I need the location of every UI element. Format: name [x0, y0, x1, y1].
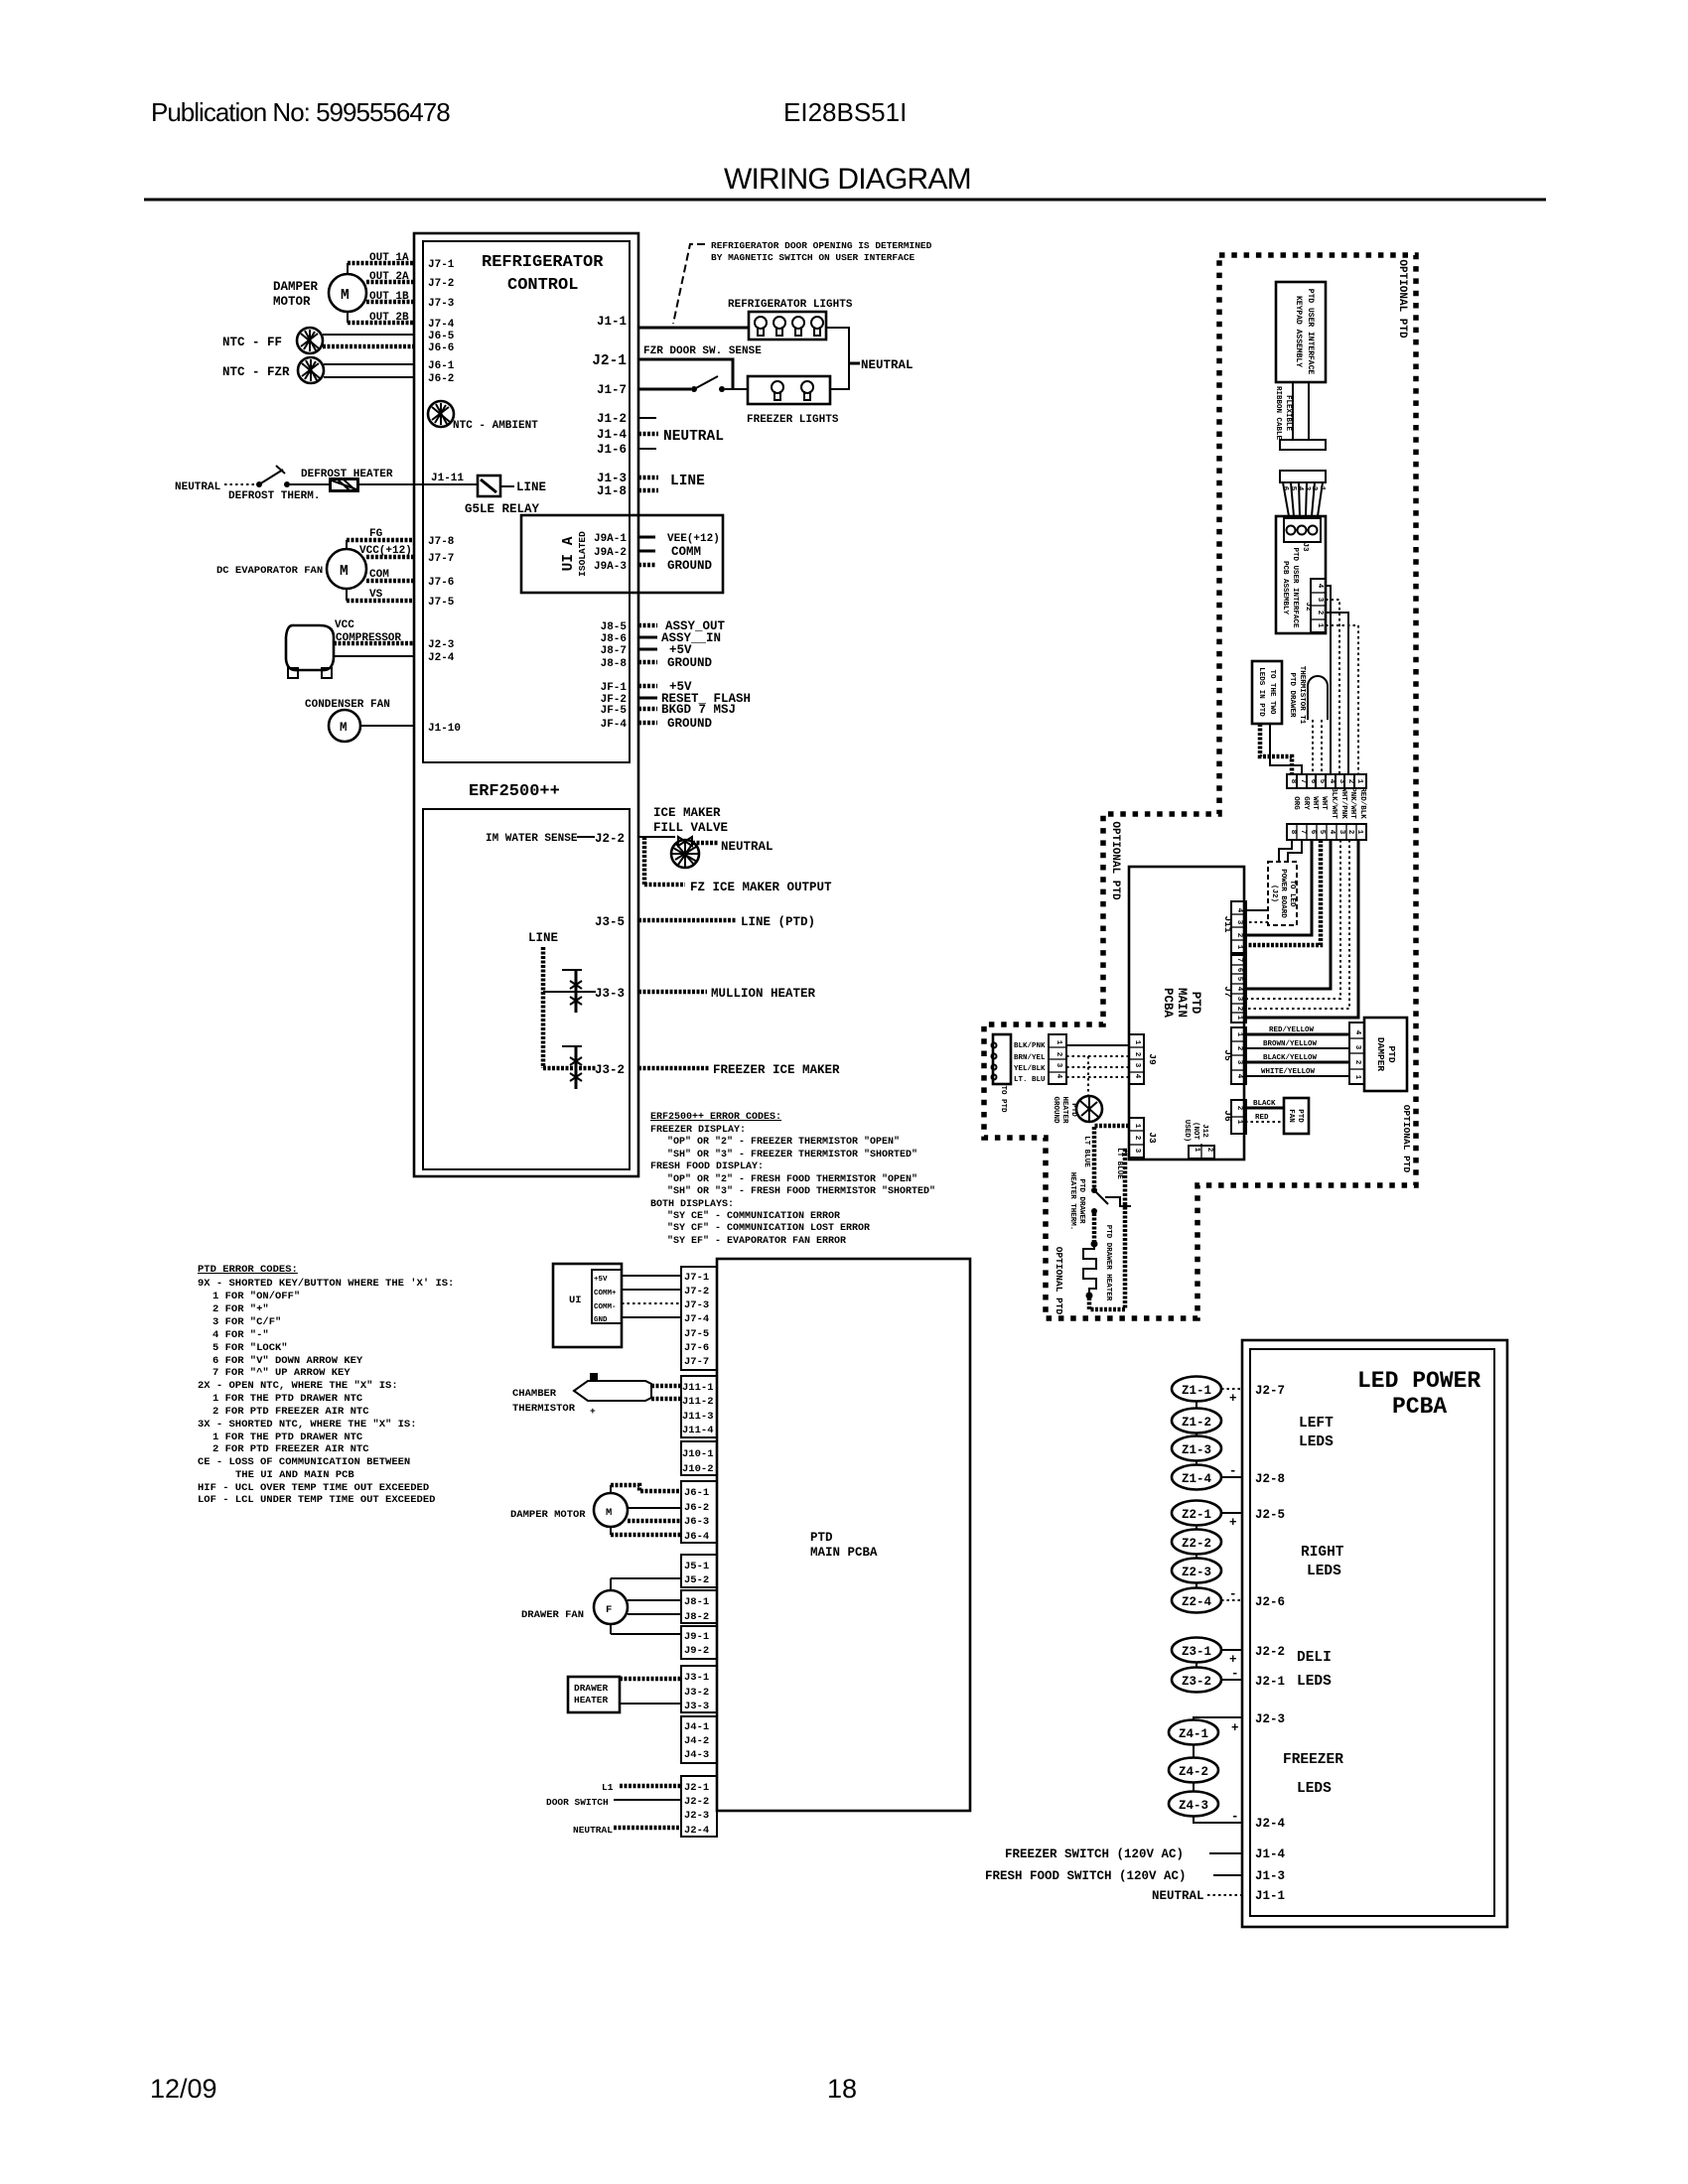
svg-text:BY MAGNETIC SWITCH ON USER INT: BY MAGNETIC SWITCH ON USER INTERFACE [711, 252, 915, 263]
svg-text:LT. BLU: LT. BLU [1014, 1076, 1046, 1084]
svg-text:M: M [340, 721, 348, 735]
svg-text:2 FOR "+": 2 FOR "+" [212, 1303, 269, 1315]
svg-text:1 FOR THE PTD DRAWER NTC: 1 FOR THE PTD DRAWER NTC [212, 1393, 363, 1405]
svg-text:J1-10: J1-10 [428, 723, 461, 735]
svg-text:4 FOR "-": 4 FOR "-" [212, 1329, 269, 1341]
svg-text:PTD DRAWER: PTD DRAWER [1077, 1178, 1085, 1224]
svg-text:J8-2: J8-2 [684, 1611, 709, 1623]
svg-text:J2-7: J2-7 [1255, 1384, 1285, 1398]
connector J7 rotated [1231, 955, 1246, 1023]
PTD drawer heater element [1091, 1241, 1098, 1248]
svg-text:OPTIONAL PTD: OPTIONAL PTD [1109, 821, 1121, 900]
svg-text:J7-6: J7-6 [428, 577, 454, 589]
svg-text:DRAWER FAN: DRAWER FAN [521, 1609, 584, 1621]
svg-text:J3-2: J3-2 [684, 1687, 709, 1699]
svg-text:J9A-1: J9A-1 [594, 533, 627, 545]
svg-text:J7-2: J7-2 [684, 1286, 709, 1297]
svg-text:LEDS: LEDS [1297, 1781, 1332, 1797]
svg-text:FREEZER ICE MAKER: FREEZER ICE MAKER [713, 1063, 840, 1077]
svg-text:5 FOR "LOCK": 5 FOR "LOCK" [212, 1342, 288, 1354]
svg-text:J1-7: J1-7 [597, 383, 627, 397]
svg-text:GROUND: GROUND [667, 656, 713, 670]
svg-text:M: M [606, 1507, 612, 1519]
svg-text:ORG: ORG [1292, 796, 1300, 810]
svg-text:3: 3 [1316, 598, 1324, 603]
svg-text:FREEZER: FREEZER [1283, 1752, 1343, 1768]
svg-text:BLK/PNK: BLK/PNK [1014, 1042, 1046, 1050]
svg-text:JF-5: JF-5 [601, 705, 628, 717]
svg-text:"SY CF" - COMMUNICATION LOST E: "SY CF" - COMMUNICATION LOST ERROR [667, 1222, 870, 1234]
svg-text:J6-3: J6-3 [684, 1516, 709, 1528]
neutral stub lights [849, 362, 860, 365]
svg-text:WHITE/YELLOW: WHITE/YELLOW [1261, 1068, 1316, 1076]
svg-text:J7-1: J7-1 [684, 1272, 709, 1284]
svg-text:MAIN PCBA: MAIN PCBA [810, 1546, 878, 1560]
wire OUT 1B [366, 300, 414, 305]
svg-text:BROWN/YELLOW: BROWN/YELLOW [1263, 1040, 1318, 1048]
svg-text:LINE: LINE [670, 474, 705, 489]
wire Z3-2 to J2-1 [1221, 1679, 1242, 1681]
svg-text:NEUTRAL: NEUTRAL [573, 1825, 613, 1836]
svg-text:J3: J3 [1301, 542, 1309, 552]
UI wires [622, 1275, 681, 1277]
svg-text:USED): USED) [1183, 1120, 1191, 1143]
svg-text:OPTIONAL PTD: OPTIONAL PTD [1401, 1105, 1412, 1173]
svg-text:2X - OPEN NTC, WHERE THE "X" I: 2X - OPEN NTC, WHERE THE "X" IS: [198, 1380, 398, 1392]
svg-text:18: 18 [827, 2074, 857, 2104]
wires strip to led box [1279, 840, 1292, 862]
svg-text:OUT 1A: OUT 1A [369, 252, 409, 264]
svg-text:FLEXIBLE: FLEXIBLE [1284, 395, 1292, 432]
svg-text:RED/YELLOW: RED/YELLOW [1269, 1026, 1315, 1034]
svg-text:7: 7 [1235, 958, 1243, 963]
wire OUT 1A [348, 261, 414, 266]
svg-text:J10-1: J10-1 [682, 1448, 714, 1460]
svg-text:DC EVAPORATOR FAN: DC EVAPORATOR FAN [216, 565, 323, 577]
fuse J3-2 [562, 1045, 582, 1047]
svg-text:Z4-3: Z4-3 [1179, 1799, 1208, 1813]
wire J2-1 fzr door sense [638, 359, 733, 389]
svg-text:HEATER: HEATER [574, 1695, 609, 1706]
svg-text:OUT 2A: OUT 2A [369, 271, 409, 283]
svg-text:BLACK: BLACK [1253, 1100, 1276, 1108]
svg-text:1: 1 [1355, 779, 1363, 784]
evaporator fan motor [327, 549, 366, 589]
refrigerator lights [749, 312, 826, 340]
connector J3 rotated [1129, 1118, 1144, 1158]
svg-text:UI: UI [569, 1295, 582, 1306]
svg-text:DELI: DELI [1297, 1650, 1332, 1666]
ribbon connector strip [1280, 471, 1326, 482]
svg-text:2: 2 [1205, 1148, 1213, 1153]
to PTD box [993, 1034, 1011, 1084]
svg-text:"SY CE" - COMMUNICATION ERROR: "SY CE" - COMMUNICATION ERROR [667, 1210, 840, 1222]
svg-text:Z2-2: Z2-2 [1182, 1537, 1211, 1551]
svg-text:VS: VS [369, 589, 383, 601]
svg-text:PTD DRAWER: PTD DRAWER [1288, 672, 1296, 718]
wire COM [366, 579, 414, 584]
svg-text:J7-3: J7-3 [684, 1299, 709, 1311]
svg-text:J8-1: J8-1 [684, 1596, 709, 1608]
svg-text:8: 8 [1289, 779, 1297, 784]
wire Z1-4 to J2-8 [1221, 1476, 1242, 1478]
svg-text:4: 4 [1133, 1074, 1141, 1079]
svg-text:2: 2 [1133, 1136, 1141, 1141]
wire NTC-FZR b [324, 376, 414, 378]
svg-text:1: 1 [1055, 1040, 1062, 1045]
svg-text:J2-4: J2-4 [1255, 1817, 1286, 1831]
svg-text:NEUTRAL: NEUTRAL [861, 358, 914, 372]
svg-text:J2-4: J2-4 [428, 652, 455, 664]
svg-text:LED POWER: LED POWER [1357, 1368, 1480, 1394]
svg-text:DAMPER: DAMPER [273, 280, 319, 294]
svg-text:J8-7: J8-7 [601, 645, 627, 657]
svg-text:J5-1: J5-1 [684, 1561, 709, 1572]
svg-text:Publication No: 5995556478: Publication No: 5995556478 [151, 97, 450, 127]
svg-text:1: 1 [1133, 1124, 1141, 1129]
svg-text:PTD USER INTERFACE: PTD USER INTERFACE [1291, 547, 1299, 628]
svg-text:3: 3 [1337, 779, 1345, 784]
svg-text:ISOLATED: ISOLATED [577, 531, 588, 577]
svg-text:Z1-2: Z1-2 [1182, 1416, 1211, 1430]
damper motor M1 [329, 274, 366, 312]
connector J3 block [681, 1666, 717, 1712]
svg-text:BKGD 7 MSJ: BKGD 7 MSJ [661, 703, 736, 717]
svg-text:J7-3: J7-3 [428, 298, 455, 310]
connector strip lower [1287, 824, 1366, 840]
svg-text:2: 2 [1235, 1046, 1243, 1051]
svg-text:L1: L1 [602, 1782, 614, 1793]
svg-text:J11: J11 [1222, 915, 1233, 932]
wire FG [347, 538, 414, 543]
svg-text:REFRIGERATOR LIGHTS: REFRIGERATOR LIGHTS [728, 299, 853, 311]
svg-text:J4-1: J4-1 [684, 1721, 709, 1733]
svg-text:THE UI AND MAIN PCB: THE UI AND MAIN PCB [235, 1469, 354, 1481]
svg-text:CE - LOSS OF COMMUNICATION BET: CE - LOSS OF COMMUNICATION BETWEEN [198, 1456, 410, 1468]
svg-text:5: 5 [1318, 830, 1326, 835]
svg-text:LT BLUE: LT BLUE [1115, 1148, 1123, 1179]
svg-text:6: 6 [1235, 968, 1243, 973]
fan of ribbon wires [1283, 482, 1289, 516]
svg-text:MOTOR: MOTOR [273, 295, 311, 309]
svg-text:Z4-1: Z4-1 [1179, 1727, 1208, 1741]
wire condenser fan [360, 725, 414, 727]
svg-text:2: 2 [1133, 1052, 1141, 1057]
svg-text:WHT: WHT [1320, 796, 1328, 810]
svg-text:DEFROST THERM.: DEFROST THERM. [228, 490, 320, 502]
svg-text:PTD ERROR CODES:: PTD ERROR CODES: [198, 1264, 298, 1276]
svg-text:3: 3 [1235, 920, 1243, 925]
wire Z2-4 to J2-6 [1221, 1599, 1242, 1601]
svg-text:J1-8: J1-8 [597, 484, 627, 498]
zone Z4 ellipses [1194, 1717, 1242, 1720]
svg-text:PTD: PTD [1386, 1045, 1397, 1062]
svg-text:2: 2 [1235, 1106, 1243, 1111]
wire to heater [1092, 1213, 1097, 1242]
svg-text:-: - [1231, 1667, 1239, 1681]
svg-text:BLK/WHT: BLK/WHT [1330, 787, 1337, 819]
svg-text:J9A-2: J9A-2 [594, 547, 627, 559]
condenser fan motor [329, 710, 360, 742]
drawer heater box [568, 1677, 620, 1712]
svg-text:NEUTRAL: NEUTRAL [663, 429, 724, 445]
svg-text:RIGHT: RIGHT [1301, 1545, 1344, 1561]
svg-text:(NOT: (NOT [1192, 1122, 1199, 1141]
wire Z1-1 to J2-7 [1221, 1388, 1242, 1390]
svg-text:J3-3: J3-3 [595, 987, 625, 1001]
svg-text:J11-4: J11-4 [682, 1425, 714, 1436]
svg-text:J6-5: J6-5 [428, 331, 455, 342]
svg-text:LINE (PTD): LINE (PTD) [741, 915, 815, 929]
PTD MAIN PCBA board [717, 1259, 970, 1811]
svg-text:Z3-1: Z3-1 [1182, 1645, 1211, 1659]
svg-text:J2-2: J2-2 [595, 832, 625, 846]
svg-text:4: 4 [1328, 830, 1336, 835]
svg-text:2: 2 [1346, 830, 1354, 835]
svg-text:POWER BOARD: POWER BOARD [1279, 869, 1287, 918]
svg-text:4: 4 [1235, 1074, 1243, 1079]
svg-text:J10-2: J10-2 [682, 1463, 714, 1475]
svg-text:3: 3 [1337, 830, 1345, 835]
svg-text:VEE(+12): VEE(+12) [667, 533, 720, 545]
svg-text:2 FOR PTD FREEZER AIR NTC: 2 FOR PTD FREEZER AIR NTC [212, 1406, 369, 1418]
svg-text:LINE: LINE [528, 931, 558, 945]
svg-text:PCBA: PCBA [1161, 988, 1175, 1019]
svg-text:+: + [1229, 1653, 1237, 1667]
svg-text:TO LED: TO LED [1288, 880, 1296, 907]
svg-text:(J2): (J2) [1270, 885, 1278, 902]
svg-text:+5V: +5V [594, 1276, 608, 1284]
svg-text:4: 4 [1055, 1074, 1062, 1079]
PTD damper box [1364, 1018, 1407, 1091]
PTD heater ground dotted drop [1087, 1056, 1089, 1095]
svg-text:HIF - UCL OVER TEMP TIME OUT E: HIF - UCL OVER TEMP TIME OUT EXCEEDED [198, 1482, 429, 1494]
svg-text:THERMISTOR T1: THERMISTOR T1 [1298, 666, 1306, 725]
freezer door switch [691, 386, 697, 392]
svg-text:J3-2: J3-2 [595, 1063, 625, 1077]
svg-text:"SH" OR "3" - FRESH FOOD THERM: "SH" OR "3" - FRESH FOOD THERMISTOR "SHO… [667, 1185, 935, 1197]
svg-text:4: 4 [1328, 779, 1336, 784]
svg-text:J7-5: J7-5 [428, 597, 455, 609]
svg-text:FAN: FAN [1287, 1109, 1295, 1123]
svg-text:FILL VALVE: FILL VALVE [653, 821, 728, 835]
connector J9 rotated [1129, 1034, 1144, 1084]
svg-text:WHT: WHT [1311, 796, 1319, 810]
connector J11 rotated [1231, 901, 1246, 953]
svg-text:MULLION HEATER: MULLION HEATER [711, 987, 816, 1001]
svg-text:J8-5: J8-5 [601, 621, 628, 633]
svg-text:DEFROST HEATER: DEFROST HEATER [301, 469, 393, 480]
note leader line [673, 244, 705, 324]
svg-text:LEDS: LEDS [1299, 1434, 1334, 1450]
svg-text:J8-6: J8-6 [601, 633, 627, 645]
svg-text:EI28BS51I: EI28BS51I [783, 97, 907, 127]
svg-text:2: 2 [1316, 611, 1324, 615]
svg-text:2: 2 [1235, 933, 1243, 938]
ground symbol [1076, 1096, 1102, 1122]
svg-text:"OP" OR "2" - FREEZER THERMIST: "OP" OR "2" - FREEZER THERMISTOR "OPEN" [667, 1136, 900, 1148]
svg-text:1 FOR "ON/OFF": 1 FOR "ON/OFF" [212, 1291, 300, 1302]
PTD drawer heater thermostat [1091, 1187, 1097, 1193]
svg-text:J7-2: J7-2 [428, 278, 454, 290]
svg-text:BOTH DISPLAYS:: BOTH DISPLAYS: [650, 1199, 734, 1210]
svg-text:J2-2: J2-2 [684, 1796, 709, 1808]
svg-text:8: 8 [1289, 830, 1297, 835]
svg-text:1: 1 [1235, 945, 1243, 950]
svg-text:F: F [606, 1604, 612, 1616]
svg-text:J9-2: J9-2 [684, 1645, 709, 1657]
svg-text:"SH" OR "3" - FREEZER THERMIST: "SH" OR "3" - FREEZER THERMISTOR "SHORTE… [667, 1149, 917, 1160]
svg-text:Z1-3: Z1-3 [1182, 1443, 1211, 1457]
svg-text:-: - [1231, 1810, 1239, 1824]
svg-text:M: M [340, 564, 349, 580]
svg-text:RIBBON CABLE: RIBBON CABLE [1274, 386, 1282, 441]
thermistor NTC-FF [297, 328, 323, 353]
svg-text:3: 3 [1133, 1149, 1141, 1154]
J2 wires down to connector strip [1326, 586, 1331, 774]
wire J1-1 to refrigerator lights [638, 327, 749, 330]
svg-text:LEDS: LEDS [1307, 1564, 1341, 1579]
svg-text:6: 6 [1309, 830, 1317, 835]
svg-text:4: 4 [1235, 908, 1243, 913]
svg-text:J7-8: J7-8 [428, 536, 455, 548]
svg-text:J6-1: J6-1 [428, 360, 455, 372]
svg-text:NTC - FF: NTC - FF [222, 336, 282, 349]
svg-text:DOOR SWITCH: DOOR SWITCH [546, 1797, 609, 1808]
refrigerator control inner box [423, 241, 630, 762]
J5 to damper wires [1245, 1033, 1349, 1036]
svg-text:LT BLUE: LT BLUE [1082, 1136, 1090, 1167]
svg-text:J2-3: J2-3 [428, 639, 455, 651]
svg-text:TO THE TWO: TO THE TWO [1268, 669, 1276, 715]
svg-text:VCC: VCC [335, 619, 354, 631]
svg-text:J4-3: J4-3 [684, 1749, 709, 1761]
defrost heater [290, 483, 329, 485]
svg-text:1: 1 [1235, 1016, 1243, 1021]
neutral stub valve [692, 841, 719, 846]
svg-text:1: 1 [1316, 623, 1324, 628]
svg-text:J7-6: J7-6 [684, 1342, 709, 1354]
svg-text:JF-4: JF-4 [601, 719, 628, 731]
wire relay LINE [500, 485, 514, 487]
svg-text:COMM-: COMM- [594, 1303, 617, 1311]
svg-text:HEATER THERM.: HEATER THERM. [1068, 1172, 1076, 1231]
svg-text:PTD: PTD [1189, 992, 1202, 1015]
svg-text:CONDENSER FAN: CONDENSER FAN [305, 699, 390, 711]
svg-text:J8-8: J8-8 [601, 658, 628, 670]
connector J2 on PCB [1311, 579, 1326, 632]
svg-text:+5V: +5V [669, 643, 692, 657]
svg-text:PCB ASSEMBLY: PCB ASSEMBLY [1281, 561, 1289, 615]
svg-text:J6-2: J6-2 [428, 373, 454, 385]
heater return wire [1089, 1151, 1129, 1309]
svg-text:M: M [341, 288, 350, 304]
svg-text:4: 4 [1353, 1030, 1361, 1035]
svg-text:LEDS: LEDS [1297, 1674, 1332, 1690]
connector J6 block [681, 1481, 717, 1543]
svg-text:1: 1 [1133, 1040, 1141, 1045]
svg-text:FZ ICE MAKER OUTPUT: FZ ICE MAKER OUTPUT [690, 881, 832, 894]
svg-text:J6-2: J6-2 [684, 1502, 709, 1514]
connector J8 block [681, 1590, 717, 1623]
svg-text:FREEZER SWITCH (120V AC): FREEZER SWITCH (120V AC) [1005, 1847, 1184, 1861]
wire OUT 2A [366, 280, 414, 285]
thermistor NTC ambient [428, 401, 454, 427]
thermistor NTC-FZR [298, 357, 324, 383]
svg-text:J6-6: J6-6 [428, 342, 454, 354]
svg-text:J2-3: J2-3 [1255, 1712, 1285, 1726]
svg-text:J2-3: J2-3 [684, 1810, 709, 1822]
wires leds box to strip [1260, 724, 1292, 774]
svg-text:GND: GND [594, 1316, 608, 1324]
svg-text:J2: J2 [1304, 602, 1312, 612]
svg-text:J1-2: J1-2 [597, 412, 627, 426]
svg-text:Z2-1: Z2-1 [1182, 1508, 1211, 1522]
svg-text:J1-4: J1-4 [1255, 1847, 1286, 1861]
svg-text:NTC - FZR: NTC - FZR [222, 365, 290, 379]
PTD damper connector [1349, 1023, 1364, 1084]
svg-text:Z2-4: Z2-4 [1182, 1595, 1212, 1609]
4 pin connector [1049, 1034, 1066, 1084]
refrigerator control outer board box [414, 233, 638, 1176]
svg-text:3: 3 [1133, 1063, 1141, 1068]
svg-text:5: 5 [1318, 779, 1326, 784]
PTD main PCBA rotated board [1129, 867, 1244, 1160]
svg-text:GRY: GRY [1302, 796, 1310, 810]
svg-text:J2-1: J2-1 [592, 353, 627, 369]
svg-text:J7-4: J7-4 [684, 1313, 709, 1325]
svg-text:PTD USER INTERFACE: PTD USER INTERFACE [1306, 289, 1315, 375]
LT BLUE wire to thermostat [1094, 1126, 1129, 1187]
svg-text:Z1-1: Z1-1 [1182, 1384, 1211, 1398]
svg-text:J11-1: J11-1 [682, 1382, 714, 1394]
svg-text:J7-5: J7-5 [684, 1328, 709, 1340]
svg-text:3X - SHORTED NTC, WHERE THE "X: 3X - SHORTED NTC, WHERE THE "X" IS: [198, 1419, 417, 1431]
svg-text:LINE: LINE [516, 480, 546, 494]
svg-text:2: 2 [1353, 1060, 1361, 1065]
svg-text:ERF2500++ ERROR CODES:: ERF2500++ ERROR CODES: [650, 1112, 781, 1123]
compressor [286, 625, 334, 670]
wire Z2-1 to J2-5 [1221, 1512, 1242, 1514]
flexible ribbon cable [1292, 382, 1294, 440]
wires to J9 [1066, 1044, 1129, 1046]
svg-text:J2-5: J2-5 [1255, 1508, 1285, 1522]
svg-text:+: + [1229, 1516, 1237, 1530]
to led power board J2 box [1268, 862, 1297, 925]
svg-text:MAIN: MAIN [1175, 988, 1189, 1018]
LED power PCBA inner box [1250, 1349, 1494, 1916]
svg-text:J7-4: J7-4 [428, 319, 455, 331]
svg-text:PTD: PTD [1069, 1103, 1077, 1117]
svg-text:J2-1: J2-1 [684, 1782, 709, 1794]
svg-text:WHT/PNK: WHT/PNK [1339, 787, 1347, 819]
svg-text:-: - [1229, 1587, 1237, 1601]
svg-text:J2-6: J2-6 [1255, 1595, 1285, 1609]
svg-text:2: 2 [1235, 1007, 1243, 1012]
svg-text:J7-1: J7-1 [428, 259, 455, 271]
connector cell dividers [1049, 593, 1364, 1158]
optional PTD dashed boundary [984, 255, 1416, 1318]
svg-text:PCBA: PCBA [1392, 1394, 1447, 1420]
ERF2500 inner box [423, 809, 630, 1169]
svg-text:3: 3 [1055, 1063, 1062, 1068]
UI A isolated box [521, 515, 723, 593]
svg-text:2: 2 [1346, 779, 1354, 784]
wire NTC-FZR a [324, 363, 414, 365]
zone Z2 ellipses [1172, 1501, 1221, 1526]
PTD user interface keypad assembly box [1276, 282, 1326, 382]
svg-text:FZR DOOR SW. SENSE: FZR DOOR SW. SENSE [643, 345, 762, 357]
